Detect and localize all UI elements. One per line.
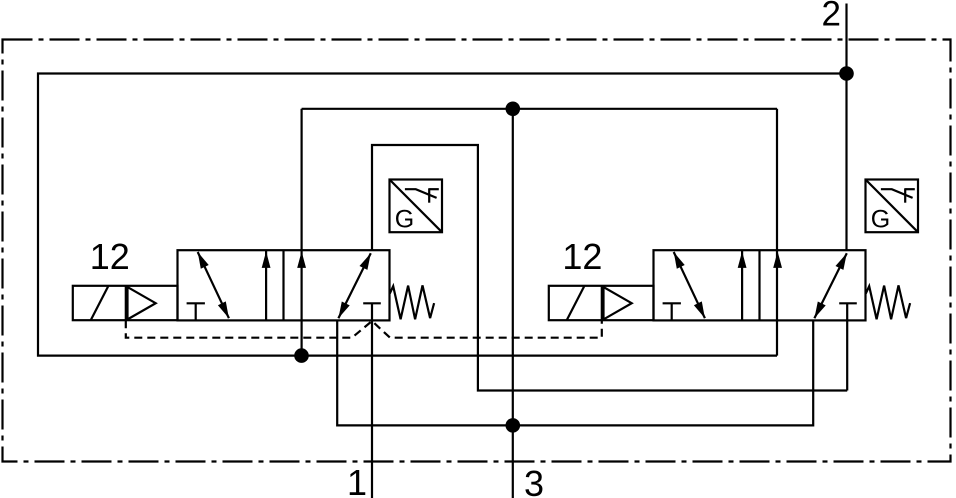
pilot control box U2 (G) bbox=[866, 180, 919, 233]
wire: port 3 line bbox=[512, 109, 514, 498]
wire: right valve port1 stem to supply loop bbox=[846, 303, 848, 390]
solenoid coil Y1 bbox=[73, 286, 178, 320]
valve V1 left box: diagonal flow arrow bbox=[198, 252, 229, 318]
wire: supply loop between valves bbox=[372, 145, 847, 391]
wire: pilot line 12 (dashed) bbox=[126, 320, 602, 338]
valve V1 return spring bbox=[390, 285, 434, 319]
node: junction left flow line / bottom loop bbox=[294, 348, 309, 363]
wire: left valve flow line x=301.6 bbox=[301, 109, 303, 356]
node: junction port2/top loop bbox=[839, 66, 854, 81]
svg-text:G: G bbox=[871, 205, 890, 233]
wire: exhaust header y=108.8 bbox=[302, 108, 777, 110]
U2 lever symbol bbox=[881, 189, 913, 198]
svg-text:12: 12 bbox=[562, 236, 602, 277]
svg-text:G: G bbox=[395, 205, 414, 233]
valve V2 right box: vertical flow arrow head bbox=[773, 251, 782, 268]
svg-text:2: 2 bbox=[822, 0, 841, 33]
valve V2 return spring bbox=[866, 285, 910, 319]
node: junction bottom exhaust link / port3 bbox=[506, 418, 521, 433]
wire: bottom exhaust link y=425.4 bbox=[337, 320, 813, 425]
valve V2 right box: blocked port T bbox=[839, 302, 857, 304]
valve V1 right box: blocked port T bbox=[363, 302, 381, 304]
wire: right valve flow line x=777 bbox=[776, 109, 778, 356]
pilot control box U1 (G) bbox=[390, 180, 443, 233]
valve V2 left box: blocked port T bbox=[663, 302, 681, 304]
svg-text:3: 3 bbox=[524, 463, 544, 498]
solenoid coil Y2 bbox=[549, 286, 654, 320]
valve V1 right box: diagonal flow arrow bbox=[338, 253, 370, 318]
valve V1 left box: vertical flow arrow bbox=[265, 250, 267, 320]
solenoid Y2 pilot amplifier triangle bbox=[604, 287, 632, 319]
node: junction exhaust header / port3 bbox=[506, 102, 521, 117]
valve V2 left box: diagonal flow arrow bbox=[674, 252, 705, 318]
solenoid Y1 pilot amplifier triangle bbox=[128, 287, 156, 319]
valve V2 left box: vertical flow arrow bbox=[741, 250, 743, 320]
valve V1 left box: blocked port T bbox=[187, 302, 205, 304]
wire: port 1 line bbox=[371, 303, 373, 498]
U1 lever symbol bbox=[405, 189, 437, 198]
valve V1 right box: vertical flow arrow head bbox=[297, 251, 306, 268]
valve V2 right box: diagonal flow arrow bbox=[814, 253, 846, 318]
svg-text:1: 1 bbox=[347, 462, 367, 498]
valve body V1 (3/2 valve, two position boxes) bbox=[178, 250, 390, 320]
wire: port 2 net top/left loop bbox=[38, 74, 847, 356]
wire: port 2 line bbox=[845, 4, 847, 251]
svg-text:12: 12 bbox=[90, 236, 130, 277]
valve body V2 (3/2 valve, two position boxes) bbox=[654, 250, 866, 320]
